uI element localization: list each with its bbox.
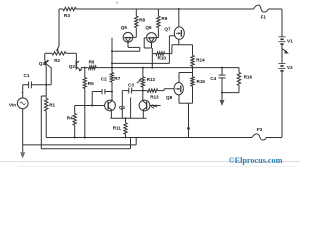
resistor R11 [113,123,127,134]
potentiometer R2 [52,46,66,63]
svg-text:C3: C3 [128,83,134,88]
svg-text:Q7: Q7 [164,27,171,32]
capacitor C4 [210,75,225,81]
svg-text:R5: R5 [88,81,94,86]
svg-text:F1: F1 [261,15,267,20]
wire C2 left lead [92,92,102,106]
node C4 top junction [221,67,223,69]
wire output bus [96,67,222,69]
wire Q7 gate drop [169,36,174,64]
capacitor C3 [128,83,134,94]
wire R5 bottom lead [84,89,86,138]
svg-text:©Elprocus.com: ©Elprocus.com [229,156,283,165]
svg-text:Q3: Q3 [39,61,46,66]
resistor R16 [237,72,252,85]
node C2 base junction [91,105,93,107]
capacitor C1 [24,73,32,88]
resistor R8 [135,16,146,27]
svg-text:Q6: Q6 [145,25,152,30]
wire input node [23,84,29,86]
resistor R4 [67,114,77,126]
wire Q1 base wire [75,105,105,107]
svg-text:R6: R6 [89,60,95,65]
wire right rail upper [281,9,283,37]
node R12 bottom junction [142,90,144,92]
svg-text:R10: R10 [158,56,167,61]
wire Q8 drain lead [178,73,180,83]
ground chassis arrow between V1 and V2 [282,49,289,54]
node R14 bus junction [192,67,194,69]
resistor R13 [147,89,159,100]
svg-text:R14: R14 [196,57,205,62]
svg-text:R9: R9 [161,16,167,21]
transistor Q7 [164,27,184,40]
fuse F2 [252,127,267,140]
wire Q2 emitter to bus [81,68,89,71]
resistor R10 [156,52,166,61]
ground arrow below Vin [20,152,25,158]
wire C4 bottom lead [221,78,223,93]
wire Q8 drain loop top [179,72,193,74]
node R10 junction [151,67,153,69]
wire C3 to R13 [132,90,148,92]
wire R16 leads [238,68,240,93]
wire Q7 source link [172,44,193,46]
wire bottom ground rail [46,137,282,139]
svg-text:R3: R3 [64,13,70,18]
wire C3 left lead [122,90,129,92]
svg-text:V1: V1 [287,38,293,43]
potentiometer R12 [137,77,156,87]
svg-text:R15: R15 [197,79,206,84]
transistor Q4 [139,100,157,111]
wire C2 right lead [105,91,112,93]
wire inner vertical a [121,91,123,119]
wire R4 bottom lead [74,125,76,137]
battery V1 [279,37,294,44]
wire R7 to Q1 collector [111,82,113,101]
resistor R14 [191,55,205,66]
wire Q1 emitter drop [110,110,112,118]
wire R1 bottom lead [45,111,47,138]
wire Q5 base right bend [132,28,137,38]
wire right rail lower [281,71,283,138]
svg-text:R2: R2 [54,58,60,63]
watermark Elprocus [229,156,283,165]
wire R9 top lead [157,9,159,16]
wire Q4 emitter drop [142,110,144,118]
wire emitter bus [111,117,147,119]
svg-text:C1: C1 [24,73,30,78]
wire R12 top lead [142,68,144,77]
wire R14 top lead [192,45,194,56]
svg-text:Vin: Vin [9,103,16,108]
wire R15 leads [192,73,194,104]
wire feedback return inner [23,138,137,145]
wire Q7 source lead [178,39,180,45]
wire feedback bus [112,62,169,64]
resistor R3 [63,7,76,18]
svg-text:R4: R4 [67,116,73,121]
node R5 ground junction [84,137,86,139]
transistor Q3 [39,60,50,67]
svg-text:R11: R11 [113,125,122,130]
wire Q3 base lead [45,65,47,84]
wire Q6 left loop [144,38,151,48]
node C2 right junction [111,91,113,93]
wire Q5 emitter path [112,42,140,51]
node feedback bus left junction [111,62,113,64]
wire R8 top lead [135,9,137,16]
resistor R6 [88,60,96,70]
transistor Q5 [121,25,133,42]
wire Q4 collector riser [142,91,144,101]
svg-text:R13: R13 [150,95,159,100]
wire C1 to base node [31,84,51,86]
wire ground lead below C4 [221,93,223,100]
wire R2 left lead [45,53,52,61]
wire Q7 drain lead [178,9,180,27]
wire R13 to Q8 gate [158,89,175,91]
svg-text:F2: F2 [257,127,263,132]
wire Q6 to R10 [151,48,153,68]
wire R11 top lead [125,117,127,123]
transistor Q1 [105,100,126,111]
capacitor C2 [101,77,107,95]
svg-text:R8: R8 [139,18,145,23]
svg-text:Q8: Q8 [166,95,173,100]
wire C4 R16 loop top [222,67,239,69]
node R5 top junction [84,67,86,69]
wire output drop to rail [187,103,190,137]
svg-text:Q5: Q5 [121,25,128,30]
wire Q5 base column [111,38,113,73]
wire top supply rail [59,8,282,10]
svg-text:C4: C4 [210,76,216,81]
battery V2 [279,64,294,71]
svg-text:V2: V2 [287,65,293,70]
wire left drop from rail to R2 wiper [58,9,60,46]
svg-text:R16: R16 [244,74,253,79]
transistor Q6 [145,25,156,42]
wire R4 top lead [74,106,76,114]
wire R5 top lead [84,68,86,78]
wire C4 R16 loop bottom [222,92,239,94]
resistor R15 [191,77,206,86]
transistor Q2 [69,61,81,72]
resistor R9 [157,16,168,27]
fuse F1 [254,5,269,20]
node R11 ground junction [125,137,127,139]
wire R14 bottom lead [192,66,194,72]
wire R2 right to Q2 collector [66,53,76,60]
node bus junction x112 [111,67,113,69]
wire feedback return outer [41,96,130,149]
wire R12 bottom lead [142,87,144,91]
wire Vin top lead [21,85,23,98]
resistor R1 [45,98,56,111]
transistor Q8 [166,83,183,101]
node R12 top junction [142,67,144,69]
svg-text:R1: R1 [49,103,55,108]
svg-text:R7: R7 [114,76,120,81]
wire Q8 drain loop bottom [179,102,193,104]
node base junction [45,84,47,86]
svg-text:R12: R12 [147,77,156,82]
wire C4 top lead [221,68,223,76]
node R4 ground junction [74,137,76,139]
node Q7 rail junction [178,8,180,10]
wire Vin bottom lead [22,109,24,153]
wire R1 top fork [41,85,46,99]
wire R10 left lead [152,53,156,55]
ground arrow below C4 [220,100,225,106]
wire between batteries [281,44,283,63]
node emitter-return junction [111,50,113,52]
wire inner vertical b [130,97,132,118]
svg-text:C2: C2 [101,77,107,82]
svg-text:Q2: Q2 [69,64,76,69]
wire Q3 emitter drop [49,66,51,84]
wire R11 bottom lead [125,134,127,137]
node C4 bottom junction [221,92,223,94]
faint mark above rail [116,1,118,3]
frame bottom line [0,161,300,166]
wire R10 right riser [165,45,172,54]
wire Q6 base right bend [155,28,158,38]
wire Q8 source lead [178,95,180,103]
wire Q4 base stub [150,105,161,107]
source Vin [9,98,28,109]
resistor R7 [110,73,121,83]
resistor R5 [83,78,94,89]
